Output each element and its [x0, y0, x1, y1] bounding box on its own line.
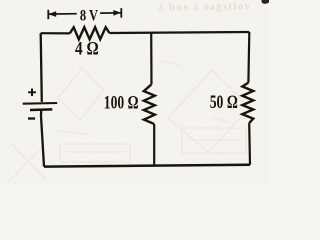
- svg-text:100 Ω: 100 Ω: [104, 93, 139, 114]
- resistor R3 50Ω zigzag: [242, 83, 253, 124]
- wire top-left segment: [41, 32, 70, 34]
- wire top-right segment: [109, 32, 249, 33]
- dimension marker 8 V left arrow: [48, 11, 77, 17]
- wire right lower: [248, 123, 251, 165]
- wire middle branch lower: [153, 124, 155, 166]
- dimension marker 8 V right arrow: [100, 10, 121, 16]
- label battery minus: [28, 117, 35, 119]
- label battery plus: [28, 89, 36, 97]
- battery B1 negative plate: [30, 108, 52, 111]
- wire left upper: [41, 33, 42, 102]
- resistor R1 4Ω zigzag: [70, 27, 110, 39]
- dimension marker 8 V left tick: [47, 10, 49, 19]
- svg-text:8 V: 8 V: [80, 7, 99, 24]
- svg-text:4 Ω: 4 Ω: [75, 40, 99, 60]
- wire right upper: [247, 32, 250, 83]
- svg-text:50 Ω: 50 Ω: [210, 92, 238, 113]
- dimension marker 8 V right tick: [120, 8, 122, 17]
- wire bottom: [44, 165, 250, 167]
- resistor R2 100Ω zigzag: [144, 84, 155, 124]
- wire middle branch upper: [150, 33, 153, 85]
- wire left lower: [41, 111, 44, 167]
- battery B1 positive plate: [23, 102, 58, 105]
